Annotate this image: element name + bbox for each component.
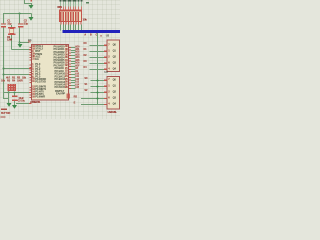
crystal X1 body <box>10 29 15 34</box>
U1 pin name P0.2/AD2 <box>54 51 65 54</box>
P2 net label 0 <box>75 68 78 70</box>
U1 pin name P1.2 <box>35 68 40 71</box>
U1 right pin number 27 <box>65 84 68 87</box>
U1 pin name P0.4/AD4 <box>54 57 65 60</box>
ground arrow A <box>6 103 11 107</box>
U1 left pin number 19 <box>32 46 35 49</box>
U1 right pin number 25 <box>65 78 68 81</box>
U2 ref label <box>106 35 109 38</box>
respack top pin 1 <box>60 7 61 10</box>
U2 pin stub 2 <box>104 51 107 52</box>
U1 left pin number 30 <box>32 56 35 59</box>
U1 pin name P3.2/INT0 <box>35 86 46 89</box>
crystal X1 plate bottom <box>8 34 15 35</box>
respack resistor 5 <box>70 12 71 22</box>
ground arrow 2 <box>29 17 34 21</box>
U1 right pin stub 34 <box>69 61 71 62</box>
U1 left pin stub 31 <box>29 59 31 60</box>
U3 wire 3 <box>91 92 104 93</box>
U1 left pin number 12 <box>32 86 35 89</box>
U1 left pin stub 11 <box>29 82 31 83</box>
respack top rail mark 6 <box>72 0 74 1</box>
respack resistor 4 <box>68 12 69 22</box>
U1 pin name P2.5/A13 <box>55 81 65 84</box>
U1 left pin number 29 <box>32 53 35 56</box>
U1 pin name P1.5 <box>35 76 40 79</box>
respack top wire 9 <box>80 2 83 7</box>
U1 pin name P1.0 <box>35 64 40 67</box>
respack bottom wire 5 <box>70 25 71 31</box>
U1 pin name P1.4 <box>35 73 40 76</box>
respack value label <box>83 19 87 22</box>
P0 net label 6 <box>75 63 79 65</box>
respack resistor 7 <box>75 12 76 22</box>
U3 pin stub 4 <box>104 98 107 99</box>
P2 net label 5 <box>75 82 79 84</box>
U3 wire 5 long <box>81 104 104 105</box>
U1 left pin stub 14 <box>29 92 31 93</box>
junction XTAL1 <box>19 42 21 44</box>
U3 pin name 4 <box>113 97 116 100</box>
U1 pin name P0.5/AD5 <box>54 60 65 63</box>
U1 left pin number 9 <box>32 51 33 54</box>
U1 left pin stub 6 <box>29 77 31 78</box>
P2 wire 1 <box>71 71 76 72</box>
respack top rail mark 8 <box>77 0 79 1</box>
junction rail/C2 <box>19 13 21 15</box>
respack bottom pin 4 <box>68 22 69 25</box>
bus label AD0 <box>84 34 86 36</box>
respack top wire 3 <box>64 2 67 7</box>
U3 pin name 2 <box>113 85 116 88</box>
U2 wire label 5 <box>83 67 86 70</box>
wire C1 upper <box>3 14 4 24</box>
U1 pin name P3.3/INT1 <box>35 89 46 92</box>
bottom left label <box>1 113 10 115</box>
respack top wire 6 <box>72 2 75 7</box>
U1 right pin number 21 <box>65 67 68 70</box>
wire C2 upper <box>19 14 20 24</box>
wire XTAL2 <box>12 49 30 50</box>
P0 wire 7 <box>71 66 76 67</box>
junction reset b <box>14 92 16 94</box>
U1 pin name XTAL1 <box>35 46 43 49</box>
U1 left pin stub 5 <box>29 75 31 76</box>
C1 ref label <box>7 20 10 23</box>
U3 pin number 5 <box>108 103 109 106</box>
respack top wire 4 <box>67 2 70 7</box>
red label row1 b <box>12 77 15 80</box>
U1 left pin number 11 <box>32 81 34 84</box>
U2 pin stub 5 <box>104 69 107 70</box>
U1 right pin number 35 <box>65 57 68 60</box>
U1 pin name PSEN <box>35 53 42 56</box>
U3 pin number 3 <box>108 91 109 94</box>
P2 net label 1 <box>75 71 78 73</box>
respack top wire 2 <box>62 2 65 7</box>
U2 pin name 1 <box>113 44 116 47</box>
U2 wire 1 <box>90 45 104 46</box>
ground arrow B <box>12 105 17 109</box>
U1 left pin stub 3 <box>29 70 31 71</box>
P0 net label 0 <box>75 46 79 48</box>
respack common bar <box>59 10 81 12</box>
U3 pin stub 3 <box>104 92 107 93</box>
U3 junction 3 <box>97 92 99 94</box>
wire crystal top rail <box>3 13 32 14</box>
ground arrow 3 <box>17 44 22 48</box>
U2 pin number 1 <box>108 44 109 47</box>
respack top rail mark 4 <box>67 0 69 1</box>
X1 ref label <box>7 36 10 39</box>
wire left col <box>8 91 9 99</box>
capacitor C1 plate b <box>1 26 6 27</box>
U1 right pin stub 26 <box>69 82 71 83</box>
U1 right pin stub 35 <box>69 58 71 59</box>
U1 pin name P0.0/AD0 <box>54 46 65 49</box>
C2 ref label <box>24 20 27 23</box>
U1 right pin number 39 <box>65 46 68 49</box>
U1 extra right row RD <box>55 90 64 93</box>
red label row2 c <box>12 80 15 83</box>
capacitor C1 plate a <box>1 23 6 24</box>
wire P1 row <box>3 68 29 69</box>
wire C1 lower long <box>3 27 4 98</box>
U1 right pin number 24 <box>65 76 68 79</box>
respack bottom wire 2 <box>63 25 64 31</box>
respack body <box>59 10 82 23</box>
VCC mark <box>86 2 89 4</box>
U2 pin number 4 <box>108 62 109 65</box>
P2 wire 7 <box>71 88 76 89</box>
wire XTAL1 <box>20 42 29 43</box>
U1 corner red mark <box>67 93 70 98</box>
U1 pin name P2.4/A12 <box>55 79 65 82</box>
U1 left pin stub 9 <box>29 52 31 53</box>
P0 wire 2 <box>71 52 76 53</box>
respack bottom pin 1 <box>60 22 61 25</box>
U3 wire 1 <box>91 80 104 81</box>
U1 left pin stub 1 <box>29 65 31 66</box>
red label mid left <box>1 109 7 110</box>
P0 net label 7 <box>75 65 79 67</box>
respack bottom pin 9 <box>81 22 82 25</box>
respack top rail mark 5 <box>69 0 71 1</box>
red label row1 a <box>6 77 10 80</box>
U2 pin name 5 <box>113 68 116 71</box>
wire bottom row <box>16 103 29 104</box>
wire drop to ground 1 <box>31 3 32 5</box>
respack top pin 3 <box>65 7 66 10</box>
U3 junction 4 <box>97 98 99 100</box>
red label row2 b <box>7 80 10 83</box>
U1 right pin number 32 <box>65 65 68 68</box>
U1 left pin number 5 <box>32 73 33 76</box>
U1 right pin stub 36 <box>69 55 71 56</box>
P2 wire 2 <box>71 74 76 75</box>
U1 part number <box>30 101 40 104</box>
U2 wire label 2 <box>83 49 86 52</box>
respack top rail mark 1 <box>59 0 61 1</box>
P2 wire 3 <box>71 77 76 78</box>
U3 pin number 1 <box>108 79 109 82</box>
bottom row label <box>18 100 25 103</box>
respack bottom wire 4 <box>68 25 69 31</box>
C2 value label <box>24 23 28 26</box>
bus label AD1 <box>90 34 92 36</box>
reset cap plate a <box>12 96 17 98</box>
respack bottom pin 2 <box>63 22 64 25</box>
U1 pin name P2.2/A10 <box>55 73 65 76</box>
U1 right pin stub 22 <box>69 71 71 72</box>
U1 left pin number 31 <box>32 58 35 61</box>
respack bottom pin 5 <box>70 22 71 25</box>
U1 left pin stub 29 <box>29 54 31 55</box>
U2 pin number 2 <box>108 50 109 53</box>
P2 net label 7 <box>75 87 79 89</box>
U1 left pin stub 30 <box>29 57 31 58</box>
respack resistor 3 <box>65 12 66 22</box>
U1 right pin stub 33 <box>69 63 71 64</box>
P2 wire 5 <box>71 82 76 83</box>
C1 value label <box>7 23 11 26</box>
red label row1 d <box>22 77 26 80</box>
U1 pin name P3.1/TXD <box>35 81 45 84</box>
respack top rail mark 3 <box>64 0 66 1</box>
U1 right pin number 28 <box>65 86 68 89</box>
U2 wire 4 <box>90 63 104 64</box>
P0 wire 3 <box>71 55 76 56</box>
U1 pin name P2.3/A11 <box>55 76 65 79</box>
U3 ref label <box>104 71 107 74</box>
U1 left pin number 18 <box>32 48 35 51</box>
U1 pin name P0.7/AD7 <box>54 65 65 68</box>
U1 ref label <box>28 39 31 42</box>
U1 right pin stub 38 <box>69 50 71 51</box>
U3 junction 1 <box>97 80 99 82</box>
pin stub reset row <box>29 92 31 93</box>
U2 wire 5 <box>90 69 104 70</box>
P0 wire 0 <box>71 47 76 48</box>
U1 right pin number 22 <box>65 70 68 73</box>
U3 body <box>107 76 120 109</box>
RP1 ref label <box>58 7 62 10</box>
respack bottom pin 6 <box>73 22 74 25</box>
U1 pin name P0.1/AD1 <box>54 49 65 52</box>
respack top pin 9 <box>81 7 82 10</box>
respack bottom pin 7 <box>75 22 76 25</box>
U1 left pin stub 13 <box>29 90 31 91</box>
P0 net label 1 <box>75 49 79 51</box>
U2 pin number 3 <box>108 56 109 59</box>
respack resistor 1 <box>60 12 61 22</box>
crystal X1 plate top <box>8 27 15 28</box>
respack bottom wire 3 <box>65 25 66 31</box>
P0 net label 2 <box>75 52 79 54</box>
U1 left pin number 15 <box>32 93 35 96</box>
U3 wire label 5 <box>74 102 76 105</box>
U2 pin name 4 <box>113 62 116 65</box>
U1 pin name P0.6/AD6 <box>54 62 65 65</box>
respack top pin 4 <box>68 7 69 10</box>
reset cap plate b <box>12 100 17 102</box>
U3 pin number 4 <box>108 97 109 100</box>
U1 right pin stub 39 <box>69 47 71 48</box>
U1 left pin stub 12 <box>29 87 31 88</box>
U1 pin name P2.6/A14 <box>55 84 65 87</box>
U3 wire 4 long <box>81 98 104 99</box>
U1 left pin stub 10 <box>29 80 31 81</box>
U1 left pin number 10 <box>32 78 35 81</box>
U3 wire label 3 <box>84 90 87 93</box>
U2 pin stub 4 <box>104 63 107 64</box>
U1 pin name P3.5/T1 <box>35 94 43 97</box>
U3 wire label 2 <box>84 84 87 87</box>
U1 left pin number 3 <box>32 68 33 71</box>
U1 pin name P1.3 <box>35 71 40 74</box>
respack top rail mark 2 <box>62 0 64 1</box>
respack top rail mark 9 <box>80 0 82 1</box>
U1 left pin stub 18 <box>29 49 31 50</box>
U1 body <box>31 44 69 101</box>
respack bottom wire 7 <box>75 25 76 31</box>
red label row2 a <box>1 80 5 83</box>
respack top pin 5 <box>70 7 71 10</box>
U1 left pin number 1 <box>32 63 33 66</box>
pin stub P1 row <box>29 68 31 69</box>
U1 right pin number 38 <box>65 48 68 51</box>
U3 wire label 1 <box>84 78 87 81</box>
P2 net label 3 <box>75 76 79 78</box>
red label row1 c <box>17 77 20 80</box>
wire drop to ground 2 <box>31 14 32 17</box>
P0 wire 4 <box>71 58 76 59</box>
U1 right pin number 33 <box>65 62 68 65</box>
U3 wire 2 <box>91 86 104 87</box>
P0 wire 6 <box>71 63 76 64</box>
P0 net label 5 <box>75 60 79 62</box>
respack bottom pin 3 <box>65 22 66 25</box>
pin stub XTAL2 <box>29 49 31 50</box>
pin stub bottom row <box>29 103 31 104</box>
respack top wire 7 <box>74 2 77 7</box>
junction reset a <box>8 92 10 94</box>
P2 wire 4 <box>71 80 76 81</box>
wire P2 row <box>3 74 29 75</box>
P2 wire 6 <box>71 85 76 86</box>
P0 net label 4 <box>75 57 79 59</box>
U1 pin name P2.7/A15 <box>55 87 65 90</box>
U3 junction 2 <box>97 86 99 88</box>
respack top pin 2 <box>63 7 64 10</box>
respack top pin 6 <box>73 7 74 10</box>
bus horizontal <box>63 30 121 33</box>
ground arrow 1 <box>29 5 34 9</box>
wire left short <box>3 98 9 99</box>
red label row2 d <box>17 80 23 83</box>
U2 pin stub 3 <box>104 57 107 58</box>
capacitor C2 plate b <box>18 26 23 27</box>
P2 net label 2 <box>75 73 79 75</box>
U1 pin name P2.1/A9 <box>55 70 64 73</box>
respack top pin 7 <box>75 7 76 10</box>
P2 net label 6 <box>75 84 79 86</box>
U1 pin name P1.1 <box>35 66 40 69</box>
U1 left pin stub 4 <box>29 72 31 73</box>
net label xtal <box>28 41 31 44</box>
U1 left pin number 16 <box>32 96 35 99</box>
X1 value label <box>7 39 12 42</box>
U1 right pin stub 21 <box>69 69 71 70</box>
U1 left pin number 2 <box>32 66 33 69</box>
U3 pin stub 5 <box>104 104 107 105</box>
U1 pin name EA <box>35 58 38 61</box>
U1 left pin stub 16 <box>29 97 31 98</box>
bus drop wire x97 <box>97 33 98 105</box>
U3 pin name 5 <box>113 103 116 106</box>
U1 right pin stub 27 <box>69 85 71 86</box>
capacitor C2 plate a <box>18 23 23 24</box>
U1 right pin number 36 <box>65 54 68 57</box>
U3 pin number 2 <box>108 85 109 88</box>
U3 part label <box>108 112 117 115</box>
respack bottom pin 8 <box>78 22 79 25</box>
U3 pin name 1 <box>113 79 116 82</box>
wire from top edge <box>24 0 25 4</box>
stem ground arrow A <box>8 98 9 103</box>
U1 right pin number 26 <box>65 81 68 84</box>
U1 pin name RST <box>35 51 40 54</box>
bus label AD2 <box>96 34 98 36</box>
U2 pin stub 1 <box>104 45 107 46</box>
respack bottom wire 9 <box>81 25 82 31</box>
U2 pin name 2 <box>113 50 116 53</box>
U2 wire 3 <box>90 57 104 58</box>
U1 left pin stub 15 <box>29 95 31 96</box>
wire reset row <box>3 92 29 93</box>
U1 pin name P3.0/RXD <box>35 78 46 81</box>
crystal top lead <box>11 25 12 27</box>
pin stub P2 row <box>29 74 31 75</box>
respack bottom wire 8 <box>78 25 79 31</box>
U3 pin name 3 <box>113 91 116 94</box>
U2 wire label 3 <box>83 55 86 58</box>
U2 wire label 1 <box>83 43 86 46</box>
respack top wire 1 <box>59 2 62 7</box>
U1 right pin stub 25 <box>69 80 71 81</box>
U2 wire 2 <box>90 51 104 52</box>
U2 wire label 4 <box>83 61 86 64</box>
U3 pin stub 1 <box>104 80 107 81</box>
U2 value label <box>100 35 101 37</box>
U1 pin name P0.3/AD3 <box>54 54 65 57</box>
U1 right pin stub 23 <box>69 74 71 75</box>
junction P1 row <box>3 68 5 70</box>
U1 right pin number 23 <box>65 73 68 76</box>
button red hatch <box>7 84 16 91</box>
crystal bottom lead <box>11 35 12 50</box>
P2 wire 0 <box>71 69 76 70</box>
U1 pin name P3.4/T0 <box>35 91 43 94</box>
U1 right pin stub 32 <box>69 66 71 67</box>
U1 pin name P3.6/WR <box>35 96 45 99</box>
P2 net label 4 <box>75 79 79 81</box>
respack resistor 6 <box>73 12 74 22</box>
respack bottom wire 1 <box>60 25 61 31</box>
U1 right pin stub 24 <box>69 77 71 78</box>
respack top pin 8 <box>78 7 79 10</box>
respack resistor 8 <box>78 12 79 22</box>
